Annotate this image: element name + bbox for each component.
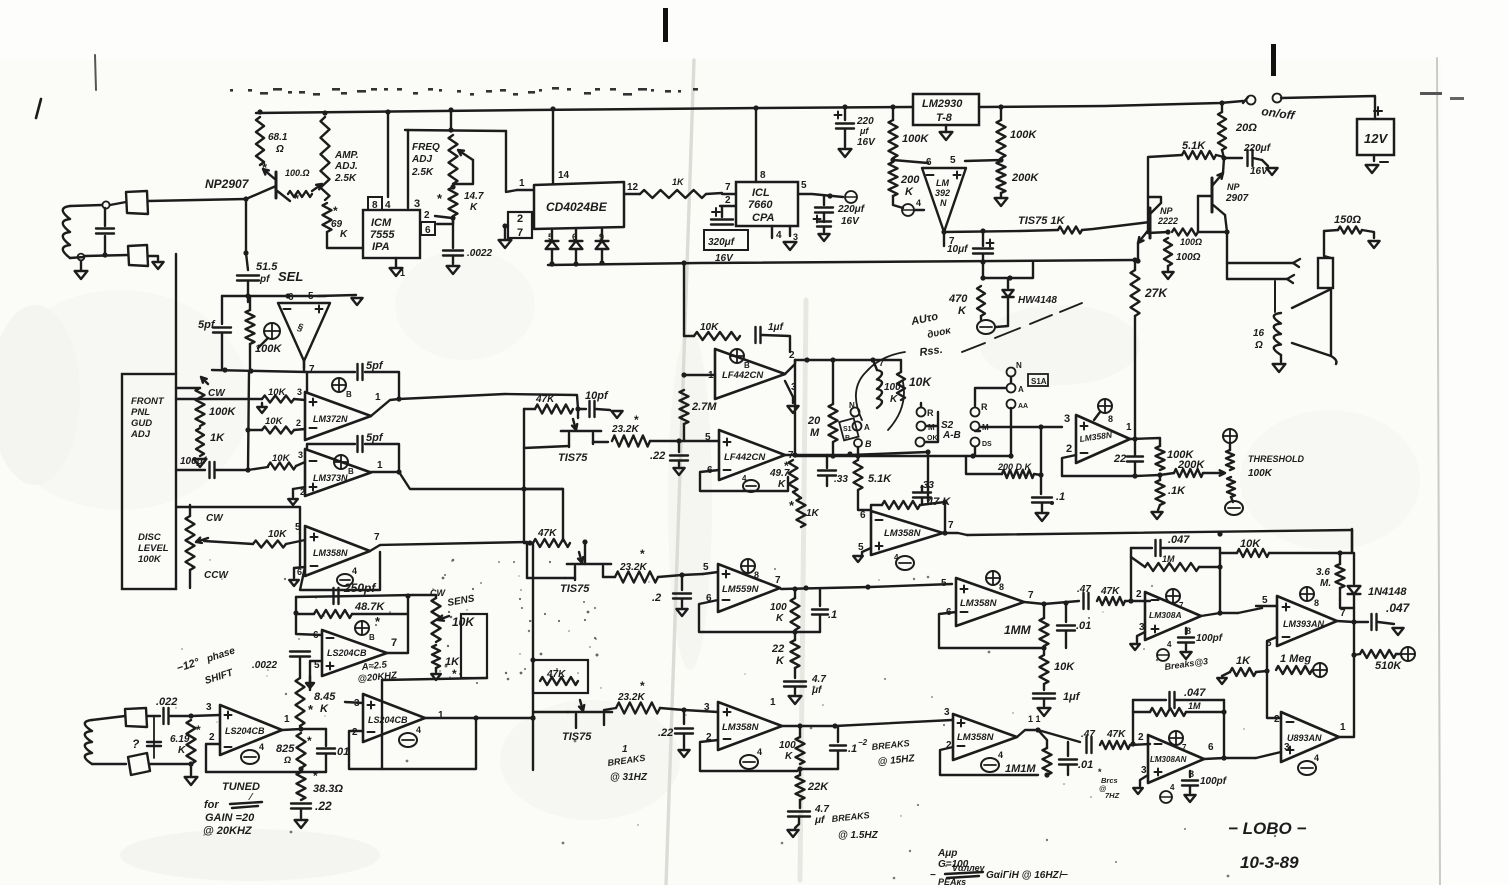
svg-text:M: M — [928, 423, 935, 432]
resistor 1K tis row — [1058, 227, 1082, 234]
svg-text:3: 3 — [1141, 765, 1147, 776]
svg-text:510K: 510K — [1375, 660, 1402, 672]
svg-text:100pf: 100pf — [1196, 633, 1224, 644]
wire coil ground — [1280, 355, 1282, 362]
node row594 — [293, 610, 298, 615]
ground 1nf a — [1038, 708, 1051, 716]
label 100pf b — [1200, 776, 1228, 787]
label 6.19K — [170, 723, 201, 756]
svg-text:TIS75: TIS75 — [558, 452, 588, 464]
resistor 5.1K mid — [854, 455, 863, 490]
svg-text:B: B — [346, 390, 352, 399]
svg-text:.01: .01 — [1078, 759, 1093, 771]
capacitor 5pf b — [358, 364, 363, 380]
op-amp U8 LM372N — [305, 392, 371, 440]
gnd 100pf b — [1184, 795, 1195, 802]
gnd arrow 10pf — [611, 411, 622, 418]
svg-text:μf: μf — [811, 685, 823, 696]
minus 204c — [225, 746, 232, 748]
node 100K3 top — [792, 586, 797, 591]
wire M to LM358 pin3 — [980, 426, 1062, 428]
svg-text:*: * — [640, 547, 645, 561]
svg-text:@ 31HZ: @ 31HZ — [610, 772, 648, 783]
ground right of pin27 — [499, 228, 512, 248]
wire out to .01 — [301, 728, 326, 730]
box 47K no3 — [533, 660, 588, 693]
pin3 204d — [345, 698, 363, 709]
svg-text:2222: 2222 — [1157, 216, 1178, 226]
minus 358-3 — [961, 611, 968, 613]
wire sw bottom bus — [795, 455, 1010, 457]
plus f2 — [724, 439, 731, 446]
svg-text:2: 2 — [1138, 732, 1144, 743]
gnd .1K — [1151, 505, 1162, 519]
capacitor .047 no1 — [1131, 540, 1220, 556]
pin box 6 — [421, 222, 435, 236]
wire 1K to Q2 base — [1082, 222, 1150, 230]
wire row490 to 527 — [524, 488, 563, 490]
wire row594 top — [296, 595, 413, 597]
theta mid — [894, 553, 914, 570]
node 100K4 bottom — [797, 766, 802, 771]
svg-text:1: 1 — [770, 697, 776, 708]
label RES — [919, 344, 944, 359]
wire Q2 emitter to bus2 — [1137, 243, 1139, 261]
label 47K mid — [926, 496, 951, 508]
label 49.7K — [769, 459, 790, 490]
svg-text:GαіГіН @ 16HZ⊢: GαіГіН @ 16HZ⊢ — [986, 870, 1069, 881]
svg-text:10μf: 10μf — [947, 244, 969, 255]
wire 23.2K a out — [650, 440, 679, 442]
svg-text:μf: μf — [814, 815, 826, 826]
svg-text:8: 8 — [372, 200, 378, 211]
ground ICM pin1 — [390, 258, 405, 278]
pin label 7 — [517, 227, 523, 239]
wire bus to freq pot — [450, 110, 452, 130]
diode on pin6 — [570, 229, 583, 264]
svg-text:6: 6 — [297, 567, 302, 577]
wire Q2 region to 100R — [1148, 197, 1168, 233]
capacitor 220uf on pin5 — [814, 196, 834, 232]
svg-text:.1: .1 — [828, 609, 837, 621]
pin6 308b — [1208, 742, 1214, 753]
svg-text:100pf: 100pf — [1200, 776, 1228, 787]
label 4.7nf a — [811, 674, 826, 696]
capacitor 220uf out — [1224, 150, 1262, 166]
svg-text:23.2K: 23.2K — [619, 562, 647, 573]
svg-text:6.19: 6.19 — [170, 734, 190, 745]
capacitor .47 b — [1087, 737, 1092, 753]
svg-text:ICL: ICL — [752, 187, 770, 199]
feedback 204d — [349, 719, 476, 769]
resistor 69K — [323, 203, 332, 232]
resistor 6.19K — [187, 720, 196, 764]
wire drain1 to 23.2K — [593, 442, 608, 443]
label LF442CN b — [724, 452, 766, 463]
svg-text:10pf: 10pf — [585, 390, 609, 402]
resistor 23.2K b — [603, 572, 658, 583]
pot circle 7 308a — [1166, 589, 1184, 610]
wire pin2 to 14.7K — [435, 216, 452, 218]
svg-text:825: 825 — [276, 743, 295, 755]
node 23.2K b right — [679, 572, 684, 577]
pot circle B f1 — [730, 349, 750, 370]
node 47K2 r — [582, 539, 587, 544]
svg-text:16V: 16V — [857, 137, 876, 148]
terminal theta pin4 — [902, 198, 924, 216]
node ring L1 bottom — [78, 254, 85, 261]
wire apex to row370 — [303, 361, 305, 371]
svg-text:6: 6 — [1208, 742, 1214, 753]
svg-text:5.1K: 5.1K — [868, 473, 892, 485]
svg-text:4.7: 4.7 — [811, 674, 826, 685]
pot circle B 372 — [332, 378, 352, 399]
wire out 3585 — [1017, 730, 1080, 742]
node top bus / pin8 drop — [385, 109, 390, 114]
jack contact top — [1227, 259, 1300, 267]
svg-text:10K: 10K — [909, 375, 932, 389]
svg-text:7: 7 — [374, 532, 380, 543]
resistor 20R — [1218, 103, 1226, 158]
wire fb block right — [1219, 548, 1221, 613]
wire 69K to ICM pin7 — [327, 232, 363, 248]
node base bottom — [243, 250, 248, 255]
label NP2907 out — [1225, 182, 1249, 204]
plus 204d — [368, 702, 375, 709]
wire out f2 — [785, 452, 928, 455]
node 6.19K bottom — [188, 761, 193, 766]
svg-text:3: 3 — [1064, 413, 1070, 425]
svg-text:pf: pf — [259, 274, 271, 285]
svg-text:FREQ: FREQ — [412, 142, 440, 153]
label 47K no3 — [546, 669, 566, 680]
wire bus2 junk branch — [983, 262, 1010, 278]
capacitor 320uf plus — [711, 206, 733, 225]
label .1 b — [848, 743, 857, 755]
wire L1 to J1 — [110, 202, 126, 205]
pin1 204c — [284, 714, 290, 725]
svg-text:10K: 10K — [268, 387, 287, 398]
label 220uf out — [1243, 143, 1272, 177]
wire gate3 left — [533, 711, 568, 713]
plus 358b — [311, 534, 318, 541]
ground below 100R — [1162, 266, 1173, 279]
label 200K r — [1177, 459, 1205, 471]
node 14.7K bottom — [450, 215, 455, 220]
node top bus / 20R drop — [1219, 100, 1224, 105]
svg-text:PNL: PNL — [131, 407, 150, 418]
label .022 — [156, 696, 177, 708]
minus 308a — [1152, 599, 1159, 601]
svg-text:K: K — [958, 305, 967, 317]
svg-text:2.5K: 2.5K — [411, 167, 434, 178]
op-amp U17 LM358N 3 — [956, 578, 1024, 626]
svg-text:LM2930: LM2930 — [922, 98, 963, 110]
wire base node down — [245, 199, 247, 253]
plus 559 — [723, 571, 730, 578]
ground 1K front — [194, 459, 207, 467]
wire fb block left — [1130, 557, 1132, 601]
node row360 c — [870, 357, 875, 362]
svg-text:12: 12 — [627, 182, 639, 193]
svg-text:14.7: 14.7 — [464, 191, 484, 202]
label .01 b — [1078, 759, 1093, 771]
node AA bus — [1008, 453, 1013, 458]
node out 3584 a — [797, 723, 802, 728]
wire vert527 mid — [523, 448, 525, 543]
label .047 out — [1386, 601, 1411, 615]
switch S1A AA — [1007, 400, 1029, 411]
switch S1A — [1007, 361, 1025, 394]
box 320uf 16V — [704, 230, 748, 264]
node seltop b — [285, 293, 290, 298]
feedback loop 372 — [307, 372, 399, 399]
svg-text:LM358N: LM358N — [722, 722, 760, 733]
resistor 47K mid — [882, 501, 920, 509]
label 200.5K — [997, 462, 1033, 472]
node bus2 x684 — [681, 260, 686, 265]
label LS204CB c — [225, 726, 265, 736]
label 10pf — [585, 390, 609, 402]
label amp g=100 — [937, 848, 969, 870]
label 100K rail — [902, 133, 929, 145]
svg-text:7: 7 — [1179, 601, 1184, 610]
svg-text:200: 200 — [900, 174, 920, 186]
pin1 204d — [438, 710, 444, 721]
svg-text:1 Meg: 1 Meg — [1280, 653, 1311, 665]
pin5 559 — [703, 562, 709, 573]
plus mid — [876, 543, 883, 550]
pin2 3584 — [706, 732, 712, 743]
svg-text:4: 4 — [757, 747, 762, 757]
plus 308a — [1152, 626, 1159, 633]
label .22 b — [658, 727, 673, 739]
resistor 47K no3 — [540, 677, 578, 685]
wire to pin3 204c — [191, 702, 220, 716]
svg-text:TIS75: TIS75 — [560, 583, 590, 595]
node 47K2 l — [527, 540, 532, 545]
pin6 204b — [296, 614, 322, 641]
label LM358N 4 — [722, 722, 760, 733]
wire 393 pin6 down — [1267, 637, 1277, 671]
wire J1 to Q1 base node — [148, 199, 246, 201]
svg-text:B: B — [348, 467, 354, 476]
node out 373 — [396, 469, 401, 474]
gnd .047 out — [1392, 628, 1403, 635]
label 20M — [807, 415, 821, 439]
theta 204c — [241, 742, 264, 764]
wire bus to pins 8/4 — [387, 112, 389, 197]
theta 308a — [1157, 640, 1172, 661]
minus mid — [876, 519, 883, 521]
svg-text:4: 4 — [998, 750, 1003, 760]
svg-text:−: − — [930, 870, 936, 881]
svg-text:LM308AN: LM308AN — [1150, 755, 1187, 764]
wire 527 to gate — [527, 577, 575, 579]
label 100K curly — [884, 382, 901, 405]
box SENS — [461, 614, 487, 678]
capacitor .2 b — [673, 575, 691, 607]
node ring L1 top — [102, 201, 109, 208]
svg-text:1: 1 — [284, 714, 290, 725]
svg-text:5.1K: 5.1K — [1182, 140, 1206, 152]
wire disc pot ends — [189, 505, 191, 588]
node top bus / amp adj — [322, 110, 327, 115]
wire fb1 left — [684, 335, 694, 337]
node fb block — [1217, 564, 1222, 569]
label 48.7K — [354, 601, 385, 613]
pin2 wire 372 — [294, 418, 305, 430]
svg-text:.22: .22 — [315, 799, 332, 813]
pin label 5 — [950, 155, 956, 166]
label 1M no1 — [1162, 554, 1175, 564]
wire 27K long drop — [1134, 316, 1136, 439]
wire pin27 stub — [505, 225, 508, 227]
svg-text:100: 100 — [779, 740, 796, 751]
wire fb block2 right — [1223, 700, 1225, 758]
node top bus / 100K drop — [890, 104, 895, 109]
wire out 308a to LM393 — [1238, 608, 1262, 613]
label 5pf b — [366, 360, 384, 372]
wire 150R left drop — [1324, 231, 1331, 258]
label 10uf — [947, 244, 969, 255]
plus r — [1081, 423, 1088, 430]
label LM372N — [313, 414, 348, 424]
pot wiper 200K — [1203, 470, 1225, 475]
wire +12V top bus right of LM2930 — [979, 101, 1243, 107]
jack J3 sleeve — [1318, 258, 1333, 288]
label 23.2K b — [619, 547, 647, 573]
svg-text:for: for — [204, 799, 219, 811]
label 22K b — [807, 781, 829, 793]
plus 3584 — [724, 709, 731, 716]
wire out 3584 — [782, 720, 952, 726]
pot circle 8 no3 — [986, 571, 1004, 592]
op-amp U19 LM393AN — [1277, 596, 1337, 646]
label .1 a — [828, 609, 837, 621]
label NP2907 — [205, 177, 250, 191]
capacitor .01 a — [1057, 604, 1075, 648]
label TIS75 1K — [1018, 215, 1066, 227]
svg-text:3: 3 — [944, 707, 950, 718]
svg-text:U893AN: U893AN — [1287, 733, 1322, 743]
pin2 893 — [1274, 714, 1280, 725]
switch S1B pole B — [854, 439, 872, 456]
label gain=20 — [205, 812, 255, 824]
wire 5.1K to 20R node — [1216, 155, 1224, 157]
svg-text:B: B — [369, 633, 375, 642]
svg-text:8: 8 — [1108, 414, 1113, 424]
label .047 no1 — [1168, 534, 1190, 546]
resistor 100K curly — [873, 360, 882, 408]
label 1nf a — [1063, 691, 1081, 703]
label 10K SENS — [452, 615, 475, 629]
svg-text:R: R — [927, 408, 934, 418]
svg-text:100K: 100K — [209, 406, 236, 418]
pin5 row587 — [941, 578, 947, 589]
svg-text:LM308A: LM308A — [1149, 610, 1182, 620]
wire row476 — [1062, 475, 1160, 476]
minus 204b — [327, 637, 334, 639]
IC U2 ICM 7555 IPA — [363, 210, 420, 258]
pin7 358b — [374, 532, 380, 543]
theta 893 — [1298, 753, 1319, 775]
wire fb top link — [1130, 548, 1132, 557]
svg-text:A: A — [1018, 385, 1024, 394]
wire J5 to node — [150, 763, 191, 765]
terminal theta pin5 — [845, 191, 857, 203]
svg-text:47K: 47K — [1100, 586, 1120, 597]
op-amp U18 LM308AN a — [1145, 592, 1201, 640]
op-amp U12 LS204CB c — [220, 705, 282, 755]
svg-text:.33: .33 — [834, 474, 848, 485]
svg-text:M.: M. — [1320, 578, 1331, 589]
wire 23.2K c out — [660, 708, 718, 712]
plus 204b — [327, 663, 334, 670]
resistor 100K pot a — [246, 297, 255, 371]
wire seltop row — [222, 295, 326, 297]
label .33 a — [834, 474, 848, 485]
label LM358N 3 — [960, 598, 998, 609]
label TUNED — [222, 781, 260, 793]
plus a — [316, 306, 323, 313]
IC U4 ICL 7660 CPA — [736, 182, 798, 226]
label 100R vert — [1176, 252, 1201, 263]
pin2 3585 — [946, 740, 952, 751]
svg-text:22K: 22K — [807, 781, 829, 793]
svg-text:*: * — [313, 769, 318, 783]
ground speaker — [1273, 364, 1286, 372]
node 100K r bottom — [1157, 472, 1162, 477]
svg-text:.01: .01 — [1076, 620, 1091, 632]
wire row360 — [795, 359, 900, 361]
label 100pf — [180, 456, 208, 467]
capacitor .0022 b — [290, 652, 310, 679]
plus 3585 — [958, 720, 965, 727]
svg-text:B: B — [865, 439, 872, 449]
pin box 8 — [368, 197, 382, 211]
resistor 1Meg — [1276, 666, 1312, 674]
label .01 a — [1076, 620, 1091, 632]
pot circle B 204b — [355, 614, 381, 642]
node out f2 — [792, 452, 797, 457]
minus 559 — [723, 599, 730, 601]
label .1K — [1168, 485, 1186, 497]
label valley gain — [930, 863, 1069, 881]
resistor 1K front — [196, 428, 204, 456]
plus 308b — [1155, 769, 1162, 776]
svg-text:.2: .2 — [652, 592, 661, 604]
wire ICL pin2 — [720, 195, 736, 206]
label 47K no2 — [537, 528, 557, 539]
svg-text:7HZ: 7HZ — [1105, 791, 1120, 800]
label LS204CB d — [368, 715, 408, 725]
label 47K in5 — [1106, 729, 1126, 740]
svg-text:7: 7 — [517, 227, 523, 239]
svg-text:8: 8 — [754, 570, 759, 580]
svg-text:*: * — [634, 413, 639, 427]
svg-text:6: 6 — [288, 292, 294, 303]
resistor 1MM — [1040, 604, 1049, 646]
op-amp U23 LM308AN b — [1148, 735, 1204, 783]
resistor 49.7K — [789, 460, 798, 492]
svg-text:100K: 100K — [1010, 129, 1037, 141]
label LM358N mid — [884, 528, 922, 539]
wire out 204c — [282, 729, 301, 730]
resistor 200K right rail — [997, 161, 1006, 193]
pin6 559 — [706, 593, 712, 604]
capacitor .01 c — [317, 729, 335, 772]
